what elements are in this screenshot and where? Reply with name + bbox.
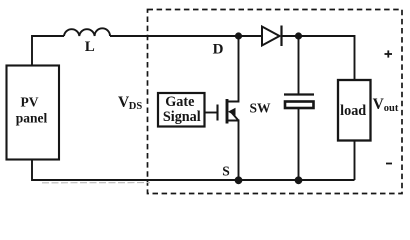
svg-text:Signal: Signal <box>163 109 201 125</box>
svg-text:D: D <box>213 42 224 58</box>
svg-text:PV: PV <box>21 95 39 110</box>
svg-text:V: V <box>373 96 385 113</box>
svg-text:out: out <box>384 103 399 114</box>
svg-text:S: S <box>222 163 230 178</box>
svg-text:load: load <box>340 103 366 119</box>
svg-text:SW: SW <box>249 101 271 116</box>
svg-text:DS: DS <box>129 101 143 112</box>
svg-text:panel: panel <box>16 111 48 126</box>
svg-text:L: L <box>85 39 95 55</box>
svg-text:Gate: Gate <box>165 94 194 110</box>
